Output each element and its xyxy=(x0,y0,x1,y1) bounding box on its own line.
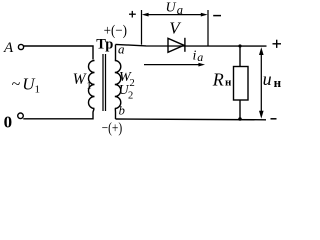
svg-text:1: 1 xyxy=(86,80,92,92)
svg-text:b: b xyxy=(119,104,125,118)
svg-text:R: R xyxy=(212,69,224,89)
svg-text:i: i xyxy=(193,49,197,64)
svg-text:0: 0 xyxy=(4,112,13,131)
svg-text:u: u xyxy=(263,69,272,89)
svg-text:2: 2 xyxy=(130,78,135,89)
svg-text:U: U xyxy=(166,1,177,16)
svg-text:2: 2 xyxy=(128,91,133,102)
svg-text:a: a xyxy=(177,3,183,17)
svg-text:A: A xyxy=(3,40,14,56)
svg-text:н: н xyxy=(225,77,232,89)
svg-text:−(+): −(+) xyxy=(102,121,123,137)
svg-text:a: a xyxy=(197,50,203,64)
svg-text:~: ~ xyxy=(12,76,21,93)
svg-text:a: a xyxy=(118,42,125,57)
svg-text:+(−): +(−) xyxy=(104,23,128,39)
svg-text:н: н xyxy=(274,75,282,90)
svg-text:1: 1 xyxy=(35,84,41,96)
